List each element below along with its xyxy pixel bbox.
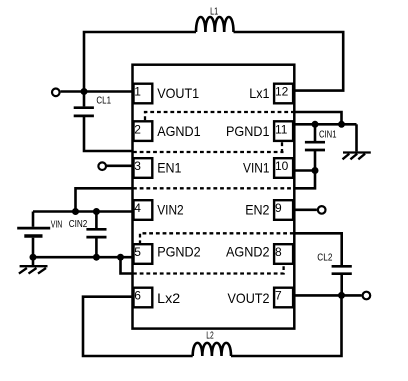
wire EN2	[295, 209, 317, 212]
dashed rail D5 AGND2	[133, 265, 284, 274]
pin 4 box	[134, 200, 153, 220]
wire PGND1 to ground	[355, 124, 358, 151]
svg-text:5: 5	[134, 245, 141, 259]
svg-text:VIN2: VIN2	[157, 202, 184, 218]
svg-text:11: 11	[275, 122, 288, 136]
svg-text:VIN1: VIN1	[243, 160, 270, 176]
svg-text:CIN1: CIN1	[319, 129, 337, 141]
pin 1 box	[134, 84, 153, 104]
dashed rail D4 PGND2-CL2	[140, 233, 294, 244]
svg-text:CIN2: CIN2	[69, 218, 88, 230]
capacitor CL2	[332, 266, 352, 273]
svg-text:VOUT1: VOUT1	[157, 85, 199, 101]
inductor L2	[193, 343, 231, 356]
battery VIN negative lead	[32, 238, 35, 266]
pin 7 box	[274, 288, 293, 308]
capacitor CIN2	[86, 229, 106, 237]
dashed rail D3 VIN	[133, 187, 294, 189]
pin 2 box	[134, 121, 153, 141]
svg-text:Lx2: Lx2	[157, 290, 180, 306]
wire L2 to VOUT2 node	[231, 295, 342, 356]
wire VIN1 row	[295, 169, 316, 172]
terminal VOUT2	[363, 292, 371, 300]
wire VOUT2 row	[295, 294, 362, 297]
battery VIN positive lead	[32, 212, 35, 227]
node CIN2 top junction	[93, 208, 100, 215]
node VIN2/D3 junction	[72, 208, 79, 215]
svg-text:CL1: CL1	[96, 94, 111, 106]
svg-text:4: 4	[134, 201, 141, 215]
wire ground row	[33, 256, 133, 259]
svg-text:EN1: EN1	[157, 160, 181, 176]
ground symbol right	[343, 153, 371, 160]
svg-text:PGND2: PGND2	[157, 244, 201, 260]
wire PGND1 row	[295, 123, 357, 126]
svg-text:12: 12	[275, 85, 289, 99]
pin 10 box	[274, 158, 293, 178]
svg-text:1: 1	[134, 85, 141, 99]
svg-text:8: 8	[275, 245, 282, 259]
capacitor CIN2 top lead	[95, 212, 98, 229]
capacitor CIN1	[305, 142, 325, 150]
wire D3 exit to VIN node	[76, 188, 134, 211]
wire top rail right	[234, 32, 344, 91]
node jog junction	[117, 254, 124, 261]
wire Lx2	[83, 297, 193, 356]
capacitor CL1	[74, 108, 94, 116]
pin 3 box	[134, 158, 153, 178]
svg-text:CL2: CL2	[317, 251, 332, 263]
pin 9 box	[274, 200, 293, 220]
dashed rail D2 stub to pin 11	[281, 142, 283, 152]
battery VIN long plate	[17, 227, 50, 230]
node VIN ground junction	[30, 254, 37, 261]
svg-text:2: 2	[134, 122, 141, 136]
battery VIN short plate	[24, 234, 42, 237]
node VOUT2 junction	[338, 292, 345, 299]
svg-text:L2: L2	[206, 329, 214, 341]
svg-text:AGND1: AGND1	[157, 123, 201, 139]
svg-text:AGND2: AGND2	[226, 244, 270, 260]
pin 12 box	[274, 84, 293, 104]
wire CL1 bottom to D2	[84, 116, 133, 151]
wire VIN1 to D3	[295, 171, 316, 189]
terminal EN1	[98, 162, 106, 170]
capacitor CIN1 top lead	[314, 124, 317, 141]
wire D4 exit to CL2	[295, 233, 342, 265]
svg-text:L1: L1	[210, 6, 218, 18]
wire VOUT1	[61, 90, 133, 93]
svg-text:VIN: VIN	[51, 219, 63, 231]
dashed rail D2 CL1-PGND1	[133, 151, 284, 153]
svg-text:7: 7	[275, 289, 282, 303]
wire jog to D5	[121, 257, 134, 273]
terminal EN2	[318, 206, 326, 214]
wire D1 exit	[295, 112, 342, 124]
wire EN1	[107, 165, 133, 168]
svg-text:VOUT2: VOUT2	[228, 290, 270, 306]
wire VIN2 row	[33, 210, 133, 213]
node VIN1/CIN1 junction	[312, 167, 319, 174]
ground symbol left	[19, 266, 48, 273]
IC U1 body	[133, 65, 295, 329]
node CIN2 bottom junction	[93, 254, 100, 261]
svg-text:6: 6	[134, 289, 141, 303]
wire to CL1	[83, 92, 86, 107]
pin 8 box	[274, 244, 293, 264]
svg-text:3: 3	[134, 159, 141, 173]
inductor L1	[196, 17, 233, 32]
terminal VOUT1	[52, 89, 60, 97]
svg-text:10: 10	[275, 159, 289, 173]
svg-text:EN2: EN2	[245, 202, 269, 218]
capacitor CL2 bottom lead	[340, 274, 343, 296]
pin 5 box	[134, 244, 153, 264]
svg-text:9: 9	[275, 201, 282, 215]
node PGND1/D1 junction	[338, 121, 345, 128]
wire top rail left	[84, 32, 196, 92]
pin 11 box	[274, 121, 293, 141]
svg-text:Lx1: Lx1	[249, 85, 269, 101]
svg-text:PGND1: PGND1	[226, 123, 270, 139]
pin 6 box	[134, 288, 153, 308]
capacitor CIN1 bottom lead	[314, 150, 317, 171]
node VOUT1 junction	[81, 88, 88, 95]
capacitor CIN2 bottom lead	[95, 237, 98, 257]
dashed rail D1 AGND1-PGND1	[145, 112, 294, 120]
node CIN1 top junction	[312, 121, 319, 128]
